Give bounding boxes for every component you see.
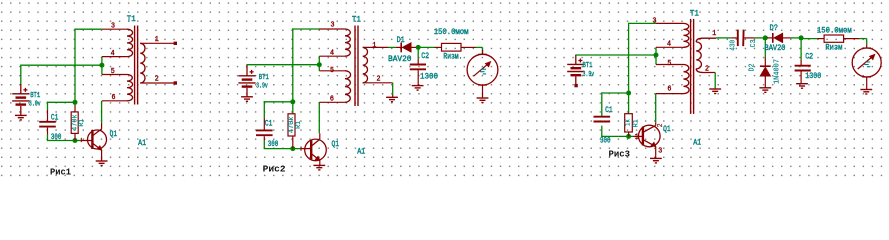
ground under Q1 xyxy=(96,161,108,166)
ground under BT1 xyxy=(15,115,27,120)
T1 pin 4 stub xyxy=(656,46,684,48)
junction C1 top xyxy=(73,100,78,105)
battery top pin xyxy=(246,65,248,76)
wire junction to C2 xyxy=(417,47,419,58)
battery open end xyxy=(574,84,577,87)
wire junction to pins 4,5 xyxy=(318,56,320,71)
battery top pin xyxy=(575,55,577,64)
wire to pin 3 xyxy=(292,28,320,30)
C2 top lead xyxy=(800,60,802,66)
battery bottom pin xyxy=(246,88,248,97)
diode D1 xyxy=(400,43,402,53)
svg-text:6: 6 xyxy=(667,86,671,94)
svg-text:C2: C2 xyxy=(421,52,429,61)
emitter to ground xyxy=(655,155,657,158)
R1 bottom lead xyxy=(74,133,76,140)
svg-text:3.0v: 3.0v xyxy=(29,101,41,109)
Q1 base pin xyxy=(634,135,643,137)
svg-text:430: 430 xyxy=(730,39,738,50)
junction R1 bottom xyxy=(290,146,295,151)
svg-text:5: 5 xyxy=(667,60,671,68)
battery bottom pin xyxy=(575,77,577,85)
T1 core xyxy=(690,19,692,114)
wire base xyxy=(601,135,633,137)
wire pin3 down to R1 xyxy=(292,28,294,113)
meter bottom pin xyxy=(866,77,868,89)
junction C1 top xyxy=(290,99,295,104)
wire C1 top horizontal xyxy=(47,101,75,103)
ground under C2 xyxy=(796,84,808,89)
svg-text:D1: D1 xyxy=(397,36,405,45)
T1 secondary winding xyxy=(363,47,368,82)
wire pin3 down to R1 xyxy=(74,29,76,105)
svg-text:2: 2 xyxy=(657,123,665,127)
R1 bottom lead xyxy=(292,136,294,149)
wire C3 to junction xyxy=(755,37,766,39)
T1 secondary winding xyxy=(140,43,145,83)
T1 pin 2 stub xyxy=(363,82,393,84)
Rizm right lead xyxy=(844,38,860,40)
svg-text:C3: C3 xyxy=(750,39,758,47)
transistor Q1 xyxy=(305,139,327,161)
svg-text:3: 3 xyxy=(111,23,115,31)
junction D1 out xyxy=(416,45,421,50)
svg-text:T1: T1 xyxy=(690,9,699,18)
capacitor C1 xyxy=(594,117,611,122)
svg-text:Рис3: Рис3 xyxy=(609,148,631,159)
junction C1 top xyxy=(626,91,631,96)
D2 anode lead xyxy=(764,76,766,88)
R1 top lead xyxy=(74,105,76,112)
svg-text:300: 300 xyxy=(268,140,279,149)
wire junction to C2 xyxy=(800,38,802,60)
svg-text:1k: 1k xyxy=(625,119,633,126)
svg-text:BAV20: BAV20 xyxy=(388,55,412,64)
svg-text:300: 300 xyxy=(51,133,62,142)
T1 pin 2 stub xyxy=(140,82,175,84)
wire junction to pins 4,5 xyxy=(655,47,657,64)
wire battery+ to center tap xyxy=(246,64,319,66)
transistor Q1 xyxy=(88,129,107,150)
T1 pin 5 stub xyxy=(319,70,345,72)
battery BT1 xyxy=(238,76,255,87)
svg-text:R1: R1 xyxy=(78,118,86,126)
svg-text:A1: A1 xyxy=(357,148,365,157)
svg-text:1300: 1300 xyxy=(805,72,821,81)
svg-text:6: 6 xyxy=(112,94,116,102)
meter V1 xyxy=(852,48,881,77)
T1 pin 6 stub xyxy=(656,93,684,95)
pin 1 open end xyxy=(174,42,177,45)
wire down to meter xyxy=(482,47,484,54)
wire C1 bottom vertical xyxy=(601,126,603,137)
junction D? out xyxy=(799,35,804,40)
wire battery+ to center tap xyxy=(575,54,656,56)
wire down to meter xyxy=(866,39,868,45)
meter top pin xyxy=(866,45,868,48)
D1 lead xyxy=(411,46,418,48)
junction R1 bottom xyxy=(73,138,78,143)
wire C1 top vertical xyxy=(601,92,603,116)
Q1 base pin xyxy=(81,140,92,142)
svg-text:3: 3 xyxy=(653,17,657,25)
gnd pin xyxy=(392,95,394,98)
D1 anode lead xyxy=(395,46,401,48)
Q1 emitter stub xyxy=(319,161,321,166)
D? lead xyxy=(767,37,773,39)
wire pin6 to collector xyxy=(318,102,320,133)
base pin tick xyxy=(300,146,302,150)
junction center tap xyxy=(99,63,104,68)
svg-text:Q1: Q1 xyxy=(110,130,118,139)
svg-text:R1: R1 xyxy=(295,120,303,128)
T1 pin 3 stub xyxy=(319,28,345,30)
T1 pin 1 stub xyxy=(140,42,175,44)
D? lead right xyxy=(783,37,791,39)
T1 pin 5 stub xyxy=(656,64,684,66)
transistor Q1 xyxy=(639,125,661,147)
ground under meter xyxy=(860,90,872,95)
wire junction to D? xyxy=(765,37,767,39)
junction center tap xyxy=(654,53,659,58)
diode D? xyxy=(772,33,774,43)
resistor Rizm xyxy=(824,35,844,42)
meter bottom pin xyxy=(482,85,484,98)
wire pin2 down xyxy=(392,83,394,95)
wire pin6 to collector xyxy=(655,94,657,123)
T1 primary winding 3-4 xyxy=(684,23,690,47)
wire base xyxy=(47,140,82,142)
emitter to ground xyxy=(101,157,103,161)
svg-text:Q1: Q1 xyxy=(332,140,340,149)
svg-text:4: 4 xyxy=(111,50,115,58)
T1 secondary winding xyxy=(696,38,716,42)
svg-text:3: 3 xyxy=(331,21,335,29)
svg-text:BT1: BT1 xyxy=(259,74,269,82)
svg-text:1: 1 xyxy=(155,36,159,44)
svg-text:D2: D2 xyxy=(748,64,756,72)
svg-text:BAV20: BAV20 xyxy=(765,44,786,53)
T1 pin 6 stub xyxy=(102,100,127,102)
svg-text:3.9v: 3.9v xyxy=(583,71,595,79)
ground under Q1 xyxy=(650,158,662,163)
Q1 collector stub xyxy=(655,123,657,126)
wire C1 bottom vertical xyxy=(47,134,49,140)
ground under pin 2 xyxy=(386,97,398,102)
svg-text:5: 5 xyxy=(330,67,334,75)
T1 core xyxy=(354,26,356,107)
wire C1 top vertical xyxy=(47,102,49,110)
junction C3 out xyxy=(763,35,768,40)
svg-text:Рис1: Рис1 xyxy=(50,167,71,178)
svg-text:4: 4 xyxy=(330,49,334,57)
Rizm right lead xyxy=(461,46,476,48)
svg-text:3.9v: 3.9v xyxy=(256,82,268,90)
wire C1 top horizontal xyxy=(601,92,628,94)
Rizm left lead xyxy=(435,46,442,48)
junction R1 bottom xyxy=(626,134,631,139)
capacitor C2 xyxy=(795,66,811,71)
T1 primary winding 5-6 xyxy=(127,75,133,101)
T1 pin 5 stub xyxy=(102,74,127,76)
R1 bottom lead xyxy=(628,132,630,136)
T1 pin 1 stub xyxy=(363,46,388,48)
svg-text:C1: C1 xyxy=(265,119,273,128)
battery bottom pin xyxy=(20,106,22,115)
T1 pin 3 stub xyxy=(656,22,684,24)
battery BT1 xyxy=(12,94,29,105)
C2 top lead xyxy=(417,59,419,65)
svg-text:BT1: BT1 xyxy=(30,92,40,100)
wire D? to junction xyxy=(791,37,802,39)
wire Rizm to meter xyxy=(476,46,483,48)
svg-text:150.0мом: 150.0мом xyxy=(817,27,852,36)
C2 bottom lead xyxy=(417,70,419,85)
T1 primary winding 3-4 xyxy=(345,29,350,56)
Q1 emitter stub xyxy=(655,147,657,156)
svg-text:1: 1 xyxy=(372,42,376,50)
svg-text:BT1: BT1 xyxy=(583,62,593,70)
svg-text:2: 2 xyxy=(705,66,709,74)
Q1 collector stub xyxy=(319,133,321,139)
C1 bottom lead xyxy=(263,136,265,140)
svg-text:150.0мом: 150.0мом xyxy=(434,28,469,37)
svg-text:Рис2: Рис2 xyxy=(263,163,286,174)
T1 core xyxy=(134,26,136,105)
T1 pin 3 stub xyxy=(102,28,127,30)
svg-text:1: 1 xyxy=(712,30,716,38)
resistor R1 xyxy=(288,114,295,136)
svg-text:R1: R1 xyxy=(633,119,641,127)
wire pin3 down to R1 xyxy=(628,23,630,114)
svg-text:C2: C2 xyxy=(805,52,813,61)
pin 2 open end xyxy=(174,81,177,84)
C1 top lead xyxy=(263,118,265,130)
svg-text:A1: A1 xyxy=(693,139,701,148)
wire junction to D2 xyxy=(764,38,766,57)
svg-text:T1: T1 xyxy=(127,15,136,24)
T1 pin 4 stub xyxy=(319,55,345,57)
T1 primary winding 5-6 xyxy=(345,71,351,103)
ground under D2 xyxy=(759,88,771,93)
capacitor C1 xyxy=(39,122,56,127)
capacitor C1 xyxy=(256,130,273,135)
resistor Rizm xyxy=(442,43,462,51)
winding xyxy=(696,42,701,69)
Rizm left lead xyxy=(817,38,824,40)
T1 pin 6 stub xyxy=(319,101,345,103)
wire to pin 3 xyxy=(628,22,656,24)
Q1 emitter stub xyxy=(101,150,103,157)
T1 primary winding 3-4 xyxy=(127,29,133,56)
svg-text:1300: 1300 xyxy=(420,73,438,82)
wire base xyxy=(264,148,301,150)
wire battery+ up xyxy=(20,65,22,84)
ground under C2 xyxy=(412,86,424,91)
meter P1 xyxy=(467,54,498,85)
svg-text:A1: A1 xyxy=(138,139,146,148)
svg-text:1N4007: 1N4007 xyxy=(773,59,781,84)
svg-text:2: 2 xyxy=(155,76,159,84)
wire C1 top vertical xyxy=(263,101,265,118)
C1 top lead xyxy=(47,110,49,122)
svg-text:3: 3 xyxy=(658,148,662,156)
wire junction to Rizm xyxy=(801,38,817,40)
T1 primary winding 5-6 xyxy=(684,65,690,94)
svg-text:Rизм.: Rизм. xyxy=(443,53,462,62)
Q1 base pin xyxy=(301,148,311,150)
wire junction to pins 4,5 xyxy=(101,57,103,75)
svg-text:C1: C1 xyxy=(605,106,613,115)
ground under meter xyxy=(477,98,489,103)
wire pin2 down xyxy=(714,73,716,89)
battery BT1 xyxy=(567,64,584,75)
wire pin1 to C3 xyxy=(716,37,731,39)
resistor R1 xyxy=(625,114,633,132)
battery top pin xyxy=(20,84,22,94)
svg-text:Rизм: Rизм xyxy=(825,44,842,53)
wire C1 bottom vertical xyxy=(263,140,265,149)
svg-text:T1: T1 xyxy=(352,16,361,25)
wire pin1 to D1 xyxy=(388,46,395,48)
C2 bottom lead xyxy=(800,71,802,83)
svg-text:4: 4 xyxy=(667,40,671,48)
Q1 collector stub xyxy=(101,123,103,129)
svg-text:6: 6 xyxy=(330,96,334,104)
ground under BT1 xyxy=(241,97,253,102)
capacitor C2 xyxy=(410,65,426,70)
svg-text:5: 5 xyxy=(111,68,115,76)
C3 left lead xyxy=(731,37,738,39)
svg-text:D?: D? xyxy=(770,24,779,33)
resistor R1 xyxy=(71,112,78,133)
svg-text:300: 300 xyxy=(600,137,611,146)
wire Rizm to meter xyxy=(860,38,867,40)
svg-text:2: 2 xyxy=(377,76,381,84)
base pin tick xyxy=(80,138,82,142)
diode D2 xyxy=(760,65,771,67)
wire junction to Rizm xyxy=(418,46,434,48)
junction center tap xyxy=(317,62,322,67)
wire C1 top horizontal xyxy=(264,101,293,103)
grid dots xyxy=(0,0,889,181)
wire to pin 3 xyxy=(74,28,102,30)
ground under Q1 xyxy=(313,165,325,170)
wire pin6 to collector xyxy=(101,101,103,123)
T1 pin 4 stub xyxy=(102,56,127,58)
capacitor C3 xyxy=(738,30,744,46)
C3 right lead xyxy=(744,37,755,39)
meter top pin xyxy=(482,50,484,54)
svg-text:C1: C1 xyxy=(51,113,59,122)
C1 bottom lead xyxy=(47,128,49,135)
D2 cathode lead xyxy=(764,57,766,66)
wire battery+ to center tap xyxy=(20,64,102,66)
ground under pin 2 xyxy=(709,89,721,94)
